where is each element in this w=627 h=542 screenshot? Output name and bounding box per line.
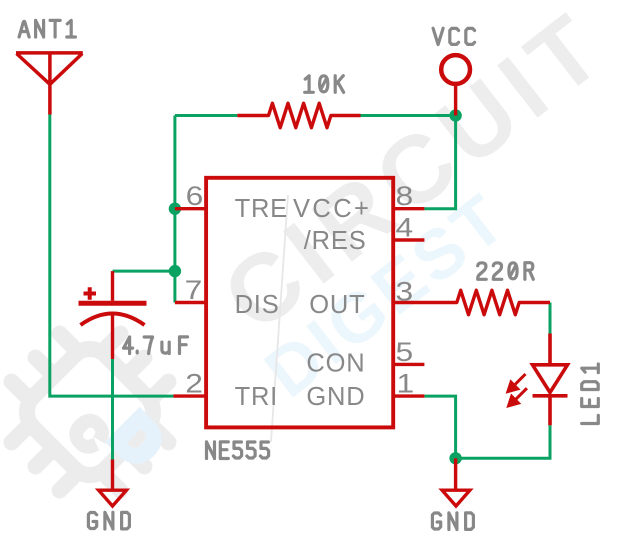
junction node GND right — [449, 452, 461, 464]
svg-text:8: 8 — [396, 181, 414, 211]
junction node pin6 — [169, 203, 181, 215]
label LED1 — [582, 364, 599, 424]
pin 7 DIS stub — [175, 301, 206, 304]
value 10K — [305, 76, 344, 93]
wire pin1 GND to ground node — [424, 396, 455, 458]
capacitor C1 4.7uF — [79, 271, 147, 359]
wire 220R right to LED anode — [549, 303, 552, 334]
pin 1 GND stub — [393, 394, 424, 397]
junction node pin7/C1 — [169, 265, 181, 277]
pin 8 VCC+ stub — [393, 207, 424, 210]
power VCC — [441, 55, 470, 115]
svg-text:7: 7 — [185, 275, 203, 305]
svg-text:GND: GND — [306, 383, 365, 411]
wire C1 minus to GND — [111, 359, 114, 460]
pin 3 OUT stub + resistor 220R — [393, 290, 550, 314]
svg-text:CON: CON — [306, 350, 365, 378]
ground GND right — [442, 458, 470, 506]
value NE555 — [207, 442, 269, 459]
pin 4 /RES stub — [393, 238, 424, 241]
pin 5 CON stub — [393, 363, 424, 366]
svg-text:2: 2 — [185, 369, 203, 399]
svg-text:DIS: DIS — [235, 291, 280, 319]
wire VCC node to pin8 — [424, 87, 455, 209]
svg-text:VCC+: VCC+ — [293, 195, 371, 223]
LED LED1 — [533, 334, 568, 426]
antenna ANT1 — [16, 53, 83, 115]
svg-text:TRE: TRE — [235, 195, 288, 223]
wire node-A to C1 plus — [113, 270, 175, 273]
op-amp U1 NE555 body — [206, 178, 393, 428]
pin 6 TRE stub — [175, 207, 206, 210]
wire node-A vertical pin6/pin7 — [173, 116, 176, 303]
svg-text:/RES: /RES — [304, 227, 367, 255]
svg-text:5: 5 — [396, 337, 414, 367]
svg-text:OUT: OUT — [309, 291, 365, 319]
svg-text:4: 4 — [396, 213, 414, 243]
ground GND left — [99, 460, 127, 507]
pin 2 TRI stub — [173, 394, 206, 397]
value 4.7uF — [124, 337, 188, 354]
value 220R — [478, 263, 534, 280]
svg-text:6: 6 — [186, 181, 204, 211]
junction node VCC — [449, 109, 461, 121]
svg-text:TRI: TRI — [235, 383, 278, 411]
svg-text:3: 3 — [396, 277, 414, 307]
wire ground node to LED cathode — [456, 425, 550, 458]
resistor 10K — [237, 103, 360, 127]
wire 10K right to VCC node — [361, 114, 456, 117]
svg-text:1: 1 — [397, 369, 415, 399]
wire node-A to 10K left — [175, 114, 237, 117]
wire ANT1 to pin2 TRI — [50, 114, 174, 396]
